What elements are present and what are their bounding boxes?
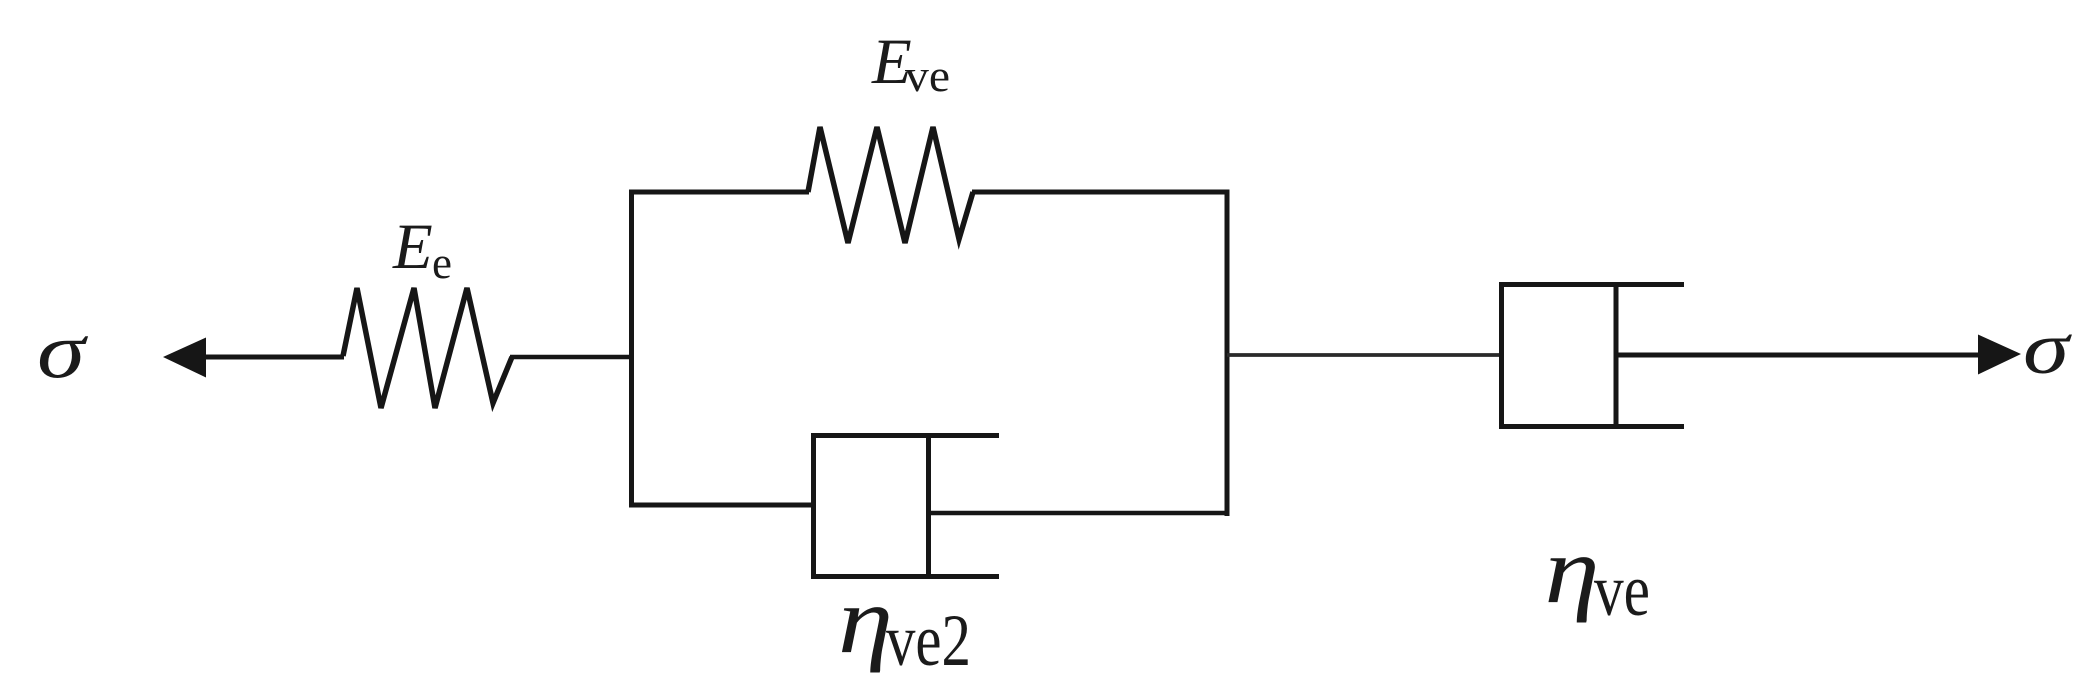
svg-text:σ: σ: [2023, 308, 2072, 390]
dashpot ve2 piston rod wire: [928, 511, 1229, 516]
dashpot ve2 cylinder: [814, 436, 1000, 577]
svg-text:E: E: [392, 211, 433, 283]
left arrow shaft wire: [202, 355, 344, 360]
dashpot ve piston: [1614, 282, 1619, 429]
spring Ee: [343, 288, 512, 408]
svg-text:e: e: [432, 238, 452, 288]
box top-right wire: [972, 190, 1230, 195]
box top-left wire: [629, 190, 809, 195]
box left wall wire: [629, 190, 634, 508]
left arrow head: [163, 338, 206, 378]
svg-text:ve: ve: [1594, 550, 1650, 632]
spring Eve: [808, 127, 973, 243]
dashpot ve cylinder: [1502, 285, 1685, 427]
dashpot ve piston rod wire: [1616, 353, 1984, 358]
svg-text:η: η: [838, 567, 893, 673]
box right wall wire: [1225, 190, 1230, 517]
right arrow head: [1978, 335, 2021, 375]
svg-text:ve: ve: [905, 51, 950, 101]
box bottom-left wire: [632, 503, 816, 508]
svg-text:η: η: [1545, 517, 1600, 623]
wire box to dashpot ve: [1227, 353, 1503, 357]
svg-text:ve2: ve2: [886, 600, 971, 682]
svg-text:σ: σ: [37, 308, 89, 395]
dashpot ve2 piston: [926, 433, 931, 579]
wire spring Ee to box: [510, 355, 634, 360]
